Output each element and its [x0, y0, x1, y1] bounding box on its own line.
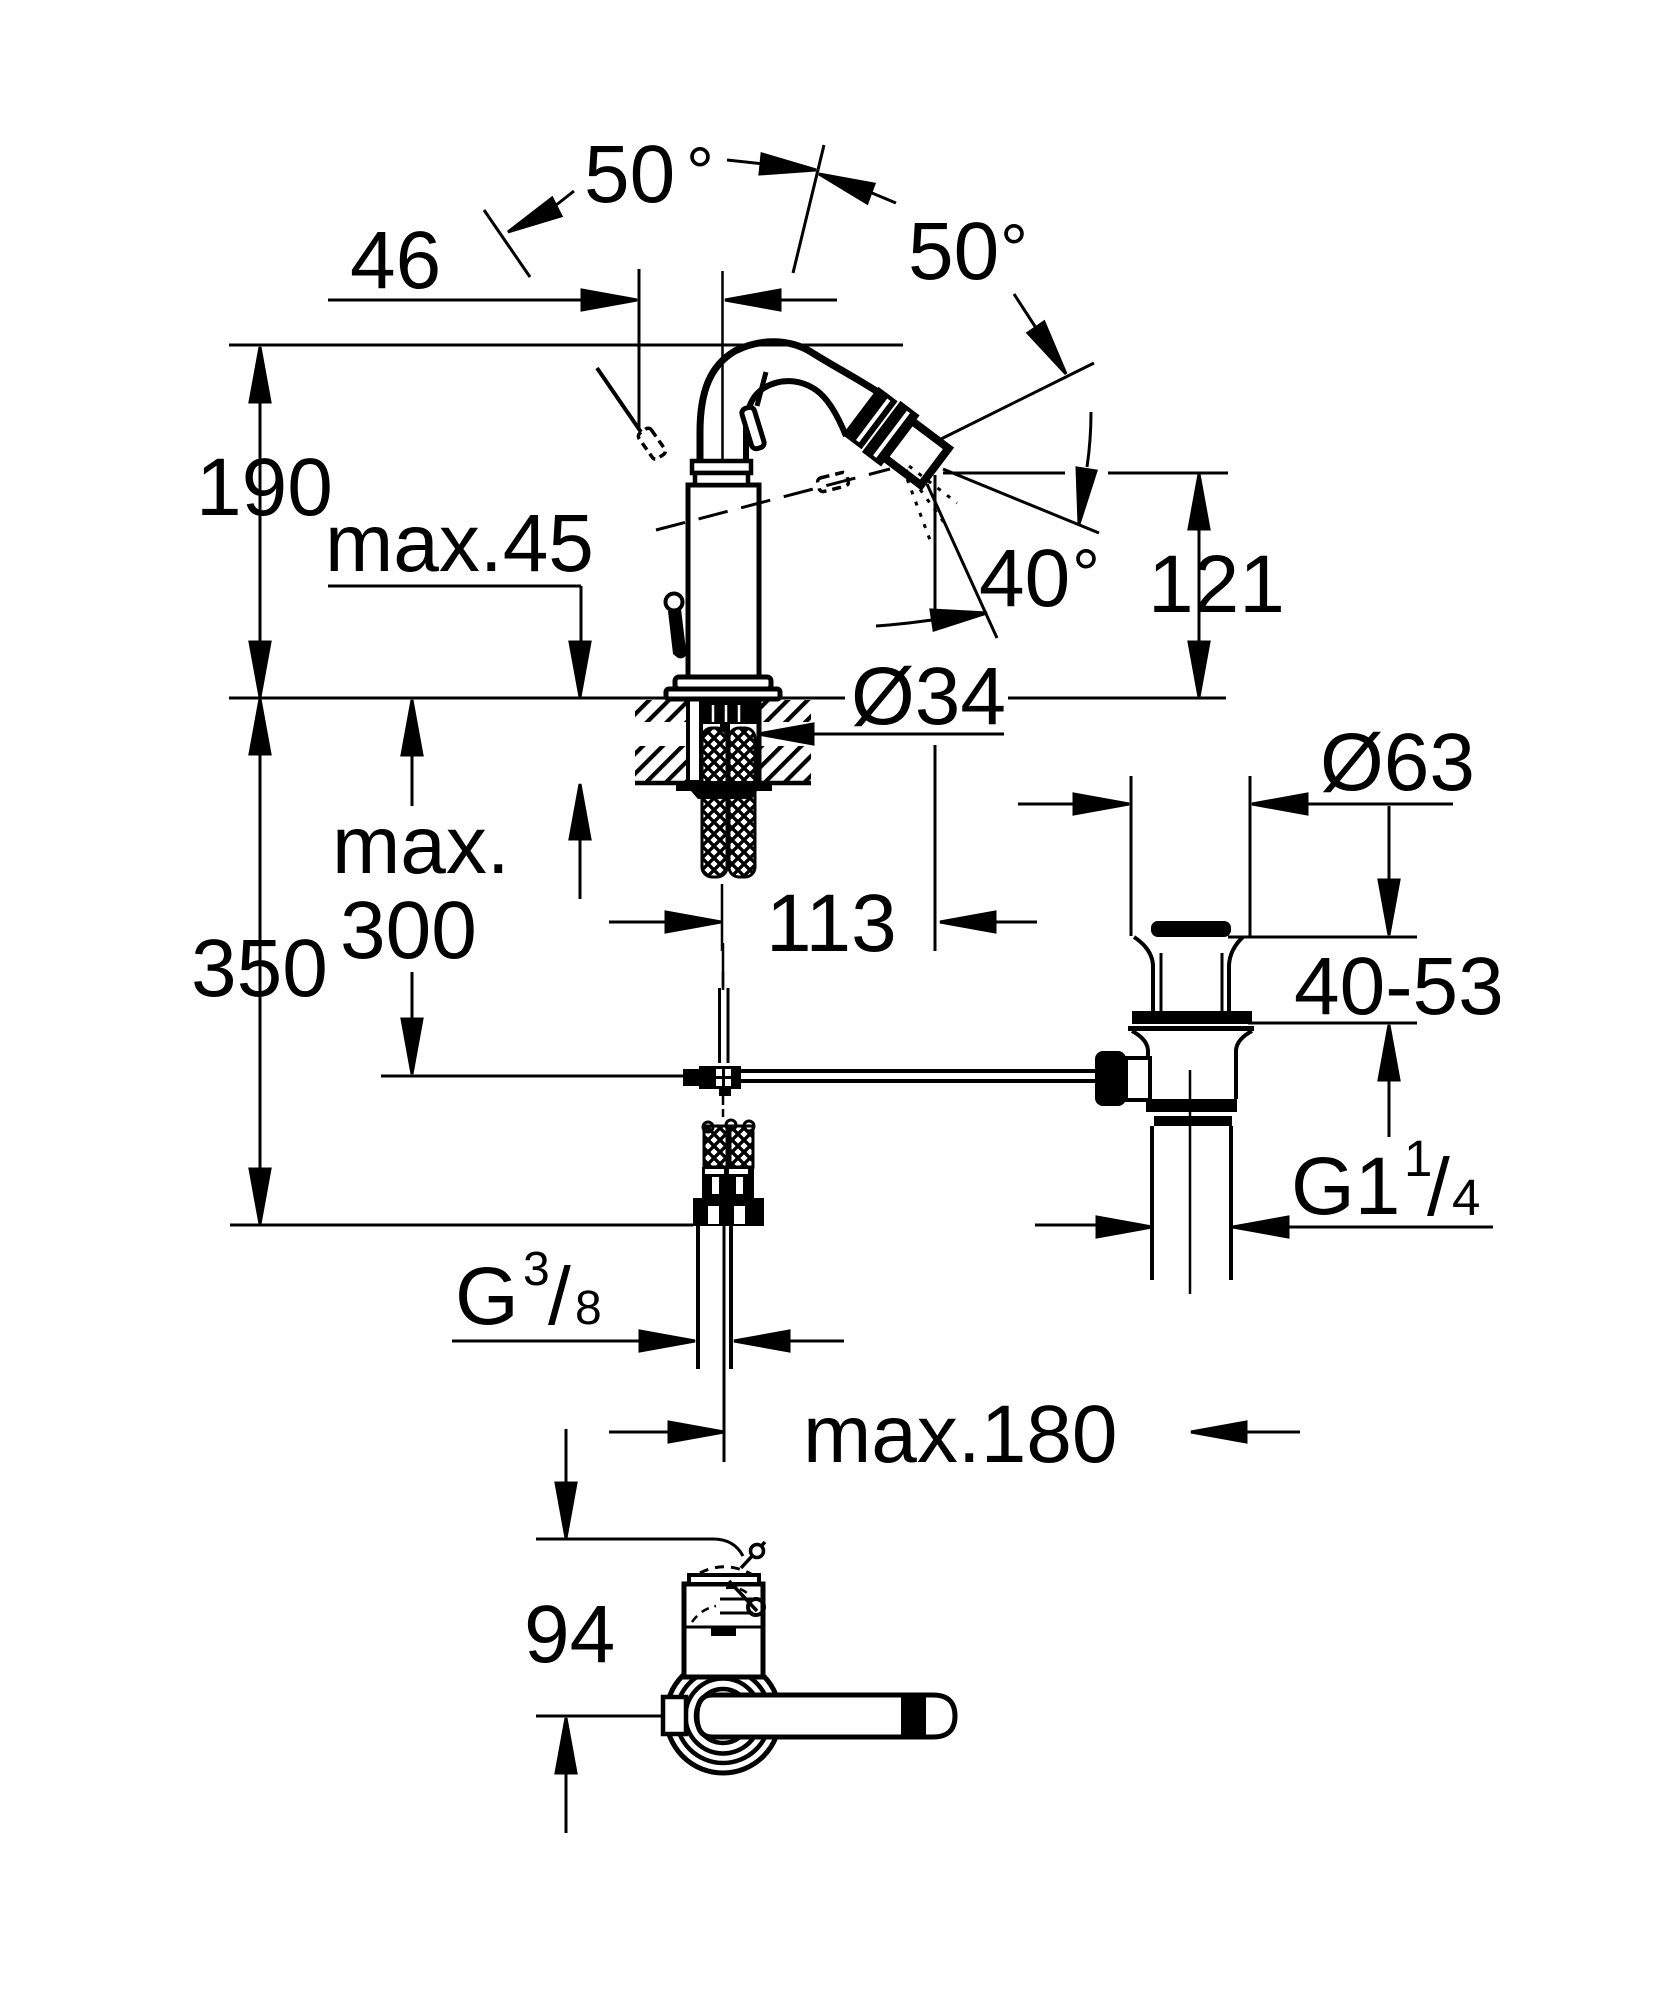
- top view lever cylinder: [720, 1598, 753, 1601]
- svg-text:46: 46: [350, 215, 441, 306]
- spout outer curve: [700, 342, 881, 462]
- top view body cap: [689, 1575, 759, 1584]
- bottom reference line: [230, 1224, 693, 1227]
- top view lever diagonal: [729, 1581, 757, 1611]
- braided supply hose right: [729, 728, 755, 877]
- svg-text:113: 113: [766, 878, 897, 969]
- max300 down arrow at supply level: [411, 972, 414, 1020]
- dimension 121 line: [1198, 474, 1201, 697]
- O63 left arrow: [1018, 803, 1076, 806]
- hole left clearance bar: [688, 698, 701, 782]
- drain upper trumpet left: [1134, 937, 1153, 1012]
- svg-text:/: /: [548, 1251, 571, 1342]
- faucet neck flange: [692, 461, 751, 473]
- top view inner line: [684, 1626, 763, 1629]
- drain upper inner walls: [1160, 953, 1163, 1011]
- svg-text:121: 121: [1148, 539, 1285, 630]
- angle 50 middle steep leg: [793, 145, 824, 273]
- svg-text:50: 50: [584, 129, 675, 220]
- dimension 94 down arrow: [565, 1429, 568, 1484]
- top view cartridge mark: [711, 1627, 736, 1636]
- spray axis dashed centerline: [656, 469, 890, 530]
- braided connector hose left: [704, 1126, 727, 1167]
- top view dashed hidden arcs: [692, 1606, 716, 1622]
- max180 right arrow: [1191, 1422, 1246, 1442]
- svg-text:max.45: max.45: [325, 498, 594, 589]
- braid top curls: [703, 1122, 713, 1132]
- drain tailpipe walls: [1150, 1126, 1154, 1280]
- angle 40 upper leg: [943, 469, 1099, 533]
- supply pipe left: [696, 1226, 700, 1369]
- drain side knob: [1095, 1051, 1126, 1106]
- top view dashed dome arc: [700, 1567, 751, 1574]
- angle 50 second arrow at aerator axis: [1014, 294, 1038, 331]
- aerator vertical reference: [934, 475, 937, 611]
- dimension 40-53 bottom tick: [1248, 1022, 1417, 1025]
- svg-text:8: 8: [575, 1282, 602, 1335]
- braided supply hose left: [702, 728, 727, 877]
- supply pipe long centerline: [723, 1226, 726, 1462]
- dimension 190 line: [259, 347, 262, 698]
- drain centerline: [1189, 1070, 1192, 1294]
- dimension 121 top arrow: [1189, 474, 1209, 529]
- horizontal rod to drain: [741, 1069, 1096, 1073]
- drain coupling bands: [1146, 1099, 1237, 1112]
- O34 dimension arrow: [758, 724, 813, 744]
- O63 extension lines: [1130, 776, 1133, 936]
- locknut under counter: [676, 781, 772, 799]
- dimension 121 bottom arrow: [1189, 642, 1209, 697]
- angle 50 cross right arrow: [819, 174, 874, 203]
- svg-text:50: 50: [908, 206, 999, 297]
- max300 up arrow at counter top: [402, 700, 422, 755]
- O63 right arrow: [1252, 794, 1307, 814]
- max45 leader under text: [328, 585, 581, 588]
- aerator axis extended line (50 deg leg): [937, 363, 1094, 441]
- angle 40 lower arc arrow: [876, 620, 932, 626]
- svg-text:300: 300: [340, 885, 477, 976]
- dimension 94 bottom tick: [536, 1715, 666, 1718]
- svg-text:190: 190: [196, 442, 333, 533]
- dimension 350 top arrow: [250, 699, 270, 754]
- top view body: [684, 1584, 763, 1677]
- top view left tab: [663, 1697, 686, 1734]
- faucet body: [688, 485, 759, 677]
- rod T junction: [699, 1066, 741, 1089]
- angle 40 upper arc arrow: [1087, 412, 1091, 467]
- angle 50 first leader line: [727, 160, 764, 164]
- svg-text:G: G: [455, 1251, 519, 1342]
- drain upper trumpet right: [1229, 937, 1243, 1012]
- dimension 40-53 top tick: [1228, 936, 1417, 939]
- top view handle bar: [697, 1695, 955, 1737]
- faucet neck step: [695, 473, 748, 485]
- top view spout tip circle: [751, 1545, 764, 1558]
- top reference line (spout height datum): [229, 344, 903, 347]
- counter bottom line: [635, 781, 811, 786]
- svg-text:/: /: [1427, 1142, 1450, 1233]
- svg-text:°: °: [1000, 210, 1028, 288]
- G3/8 dimension line: [452, 1340, 642, 1343]
- drain body left: [1132, 1031, 1148, 1099]
- dimension 190 bottom arrow: [250, 642, 270, 697]
- drain washer: [1132, 1011, 1252, 1024]
- braided connector hose right: [730, 1126, 753, 1167]
- svg-text:°: °: [1072, 535, 1100, 613]
- angle 50 cross left arrow: [760, 154, 816, 174]
- svg-text:Ø63: Ø63: [1320, 717, 1475, 808]
- G1 1/4 right arrow: [1233, 1217, 1288, 1237]
- max45 up arrow at counter bottom: [570, 784, 590, 839]
- drain body right: [1236, 1031, 1252, 1099]
- svg-text:40: 40: [979, 533, 1070, 624]
- base flange: [675, 677, 771, 689]
- max45 down arrow at counter top: [570, 642, 590, 697]
- connector nut: [693, 1198, 764, 1226]
- threaded shank below counter: [701, 699, 758, 724]
- dimension 94 up arrow: [556, 1718, 576, 1773]
- 40-53 down arrow: [1388, 806, 1391, 881]
- rotated handle ghost line: [597, 368, 641, 432]
- angle 50 left arrow: [508, 198, 561, 232]
- dimension 113 right arrow: [940, 912, 995, 932]
- supply pipe right: [729, 1226, 733, 1369]
- dimension 46 line right: [778, 299, 837, 302]
- dimension 190 top arrow: [250, 347, 270, 402]
- dimension 46 left arrow: [582, 290, 637, 310]
- pop-up lever knob: [666, 594, 683, 611]
- angle 50 left leg tick: [484, 210, 530, 277]
- hole right edge: [757, 698, 762, 783]
- extension line below O34: [934, 745, 937, 951]
- drain popup plug: [1151, 921, 1231, 937]
- svg-text:350: 350: [191, 923, 328, 1014]
- faucet centerline below hoses: [721, 884, 724, 951]
- counter hatched section left lower: [635, 746, 694, 781]
- G1 1/4 left arrow: [1097, 1217, 1152, 1237]
- svg-text:3: 3: [523, 1243, 550, 1296]
- svg-text:°: °: [686, 133, 714, 211]
- dimension 46 right arrow: [725, 290, 780, 310]
- svg-text:94: 94: [524, 1589, 615, 1680]
- svg-text:G1: G1: [1291, 1141, 1400, 1232]
- faucet centerline extension: [721, 271, 724, 461]
- counter top line: [229, 697, 845, 700]
- counter hatched section right upper: [758, 700, 811, 722]
- aerator collars and cap: [841, 385, 954, 492]
- pop-up lever blade: [668, 609, 686, 658]
- dimension 350 bottom arrow: [250, 1169, 270, 1224]
- connector fitting: [702, 1167, 754, 1198]
- 40-53 up arrow: [1379, 1025, 1399, 1080]
- svg-text:40-53: 40-53: [1294, 941, 1504, 1032]
- dimension 113 left arrow: [609, 921, 668, 924]
- supply connection horizontal line: [381, 1075, 683, 1078]
- top view handle dark band: [901, 1697, 926, 1735]
- rotated handle ghost tip (dashed): [637, 427, 667, 461]
- max180 left arrow: [609, 1431, 671, 1434]
- top view escutcheon circles: [666, 1659, 780, 1773]
- svg-text:max.180: max.180: [803, 1389, 1118, 1480]
- dimension 94 top tick with leader to spout tip: [536, 1539, 743, 1556]
- counter hatched section left upper: [635, 700, 694, 722]
- dimension 46 line left: [328, 299, 584, 302]
- drain knob connector: [1126, 1058, 1150, 1100]
- angle 40 lower leg: [927, 484, 997, 638]
- top view spout tip line: [741, 1542, 765, 1568]
- svg-text:max.: max.: [332, 800, 510, 891]
- aerator horizontal reference line: [943, 472, 1065, 475]
- spray dotted rays: [903, 466, 957, 540]
- shank gap row with stud: [720, 724, 730, 735]
- top view lever pivot circle: [748, 1599, 764, 1615]
- extension line left of 46: [638, 269, 641, 430]
- spout inner curve: [746, 381, 846, 461]
- counter hatched section right lower: [758, 746, 811, 781]
- ghost handle pill on spray axis: [817, 472, 849, 493]
- base plate: [666, 689, 780, 699]
- svg-text:4: 4: [1452, 1169, 1480, 1226]
- dimension 350 line: [259, 699, 262, 1224]
- svg-text:Ø34: Ø34: [851, 651, 1006, 742]
- handle lever on spout: [757, 372, 766, 406]
- pull rod vertical: [722, 943, 725, 988]
